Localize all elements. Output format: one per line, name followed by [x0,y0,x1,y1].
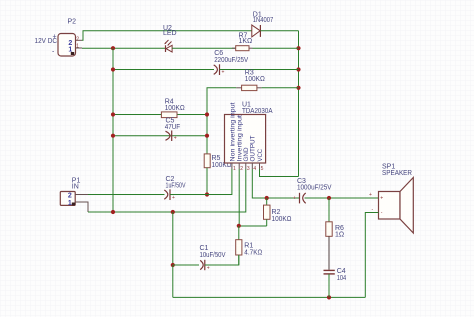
wire speaker minus to bottom rail [365,213,378,298]
junction left bus / C5 line [111,134,115,138]
resistor R3 [236,69,264,90]
svg-text:R1: R1 [244,242,253,249]
wire R5 to input line [206,168,208,195]
resistor R1 [236,226,263,265]
svg-text:SPEAKER: SPEAKER [382,170,412,177]
junction ground line / C1 branch [171,210,175,214]
V+ bus wire [298,31,300,177]
svg-text:100KΩ: 100KΩ [165,105,185,112]
wire C3 to speaker [305,197,379,199]
svg-text:IN: IN [72,184,79,191]
wire R4 line [113,114,207,116]
wire C1 branch to bottom rail [172,265,174,297]
wire P1 pin2 stub [75,194,88,196]
feedback node wire [239,225,267,227]
junction left bus top [111,46,115,50]
junction left bus / R4 line [111,112,115,116]
svg-text:1uF/50V: 1uF/50V [166,182,186,189]
junction V+ bus / R3 line [296,86,300,90]
wire C4 to bottom rail [328,274,330,298]
resistor R7 [232,32,253,50]
capacitor C5 [165,118,181,142]
svg-text:Non inverting input: Non inverting input [229,102,236,161]
wire pin4 to output line [252,169,299,198]
wire pin5 to V+ bus [260,169,299,177]
svg-text:2: 2 [76,37,79,43]
capacitor C3 [293,178,332,203]
svg-text:2200uF/25V: 2200uF/25V [214,57,248,64]
capacitor C1 [200,245,226,272]
svg-text:1Ω: 1Ω [335,232,344,239]
wire C1 right to R1 [205,255,239,265]
svg-text:+: + [380,196,383,202]
resistor R6 [326,198,344,239]
svg-text:1: 1 [68,200,72,207]
connector P1 [60,178,80,207]
speaker SP1 [369,164,413,233]
svg-text:+: + [174,136,177,142]
wire R3 line to node vertical [207,88,236,154]
junction output / R6 [327,196,331,200]
svg-text:2: 2 [68,193,72,200]
junction output line / R2 [265,196,269,200]
bottom rail wire [173,296,365,298]
wire R7 to V+ bus [253,47,299,49]
op-amp IC U1 TDA2030A [225,101,273,172]
wire C6 to V+ bus [220,69,299,71]
svg-text:+: + [207,266,210,272]
svg-text:2: 2 [240,166,243,172]
ground line wire [88,169,246,212]
junction left bus / C6 line [111,67,115,71]
label 12V DC [35,34,58,56]
svg-text:100KΩ: 100KΩ [245,76,265,83]
junction node / C5 line [205,134,209,138]
svg-text:1KΩ: 1KΩ [239,38,253,45]
wire D1 cathode to V+ bus [260,30,298,32]
svg-text:+: + [53,34,57,41]
svg-text:P2: P2 [68,19,77,26]
resistor R5 [204,154,231,169]
svg-text:VCC: VCC [257,149,264,162]
wire P1 pin1 stub [75,202,88,212]
svg-text:1N4007: 1N4007 [253,17,274,24]
junction bottom rail / C4 [327,295,331,299]
diode D1 [252,12,274,37]
LED U2 [163,25,177,52]
svg-text:C4: C4 [337,268,346,275]
wire C5 line [113,135,207,137]
capacitor C2 [164,176,185,201]
junction V+ bus / LED-R7 line [296,46,300,50]
junction feedback node [237,224,241,228]
resistor R2 [264,198,292,226]
capacitor C6 [214,50,249,76]
junction V+ bus / C6 line [296,67,300,71]
svg-text:4.7KΩ: 4.7KΩ [244,250,262,257]
svg-text:R5: R5 [212,155,221,162]
wire C6 line left [113,69,214,71]
svg-text:OUTPUT: OUTPUT [250,135,257,161]
svg-text:+: + [369,192,372,198]
svg-text:4: 4 [253,166,256,172]
svg-text:1: 1 [76,44,79,50]
resistor R4 [161,99,184,118]
wire C1 left [173,264,199,266]
svg-text:C6: C6 [214,50,223,57]
junction ground line / left bus [111,210,115,214]
wire P2 pin1 to LED anode [82,47,165,49]
wire pin2 to feedback node [238,169,240,226]
junction node / R4 line [205,112,209,116]
junction input line / R5 [205,192,209,196]
junction C1 left [171,263,175,267]
svg-text:LED: LED [163,30,177,37]
svg-text:104: 104 [337,275,347,282]
svg-text:5: 5 [261,166,264,172]
wire R6 to C4 [328,236,330,269]
wire P1 pin2 to C2 [88,194,165,196]
wire C2 to IC pin1 [170,169,232,195]
left bus wire [112,48,114,212]
connector P2 [58,19,82,57]
svg-text:TDA2030A: TDA2030A [242,108,273,115]
wire LED to R7 [172,47,236,49]
svg-text:3: 3 [247,166,250,172]
svg-text:47UF: 47UF [165,124,181,131]
svg-text:1: 1 [233,166,236,172]
wire P2 pin2 to D1 anode [82,31,252,41]
capacitor C4 [324,268,347,282]
svg-text:1000uF/25V: 1000uF/25V [297,184,332,191]
svg-text:10uF/50V: 10uF/50V [200,252,226,259]
svg-text:+: + [172,195,175,201]
wire C1 branch vertical [172,212,174,265]
svg-text:+: + [293,196,296,202]
svg-text:+: + [222,70,225,76]
wire R3 to V+ bus [262,87,299,89]
svg-text:100KΩ: 100KΩ [272,216,292,223]
